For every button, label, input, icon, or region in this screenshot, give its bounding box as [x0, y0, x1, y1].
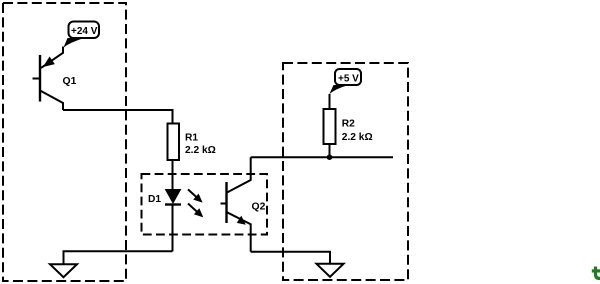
svg-text:D1: D1 — [148, 194, 161, 205]
wire +5V to R2 — [329, 94, 331, 109]
light arrow 1 — [188, 189, 197, 197]
left dashed subsystem box — [3, 3, 126, 281]
transistor Q1 (PNP) base bar — [39, 55, 41, 102]
optocoupler dashed box — [142, 174, 268, 235]
wire R1 to D1 anode — [172, 160, 174, 190]
ground (left) — [50, 264, 77, 277]
LED D1 triangle — [166, 190, 181, 204]
Q2 emitter arrowhead — [237, 216, 246, 225]
wire D1 cathode down — [172, 206, 174, 252]
svg-text:2.2 kΩ: 2.2 kΩ — [185, 145, 216, 156]
resistor R2 — [324, 109, 336, 144]
svg-text:2.2 kΩ: 2.2 kΩ — [342, 132, 373, 143]
+24 V supply label — [69, 22, 100, 39]
wire Q2 emitter to ground — [251, 252, 330, 264]
Q2 collector wire — [227, 157, 251, 192]
transistor Q2 (photo NPN) base bar — [225, 182, 227, 223]
Q2 base stub — [221, 203, 227, 205]
svg-text:+24 V: +24 V — [71, 26, 98, 37]
Q2 emitter wire — [227, 212, 251, 251]
svg-text:R1: R1 — [185, 133, 198, 144]
Q1 emitter arrowhead — [44, 57, 54, 66]
wire bottom left to ground — [64, 251, 173, 264]
svg-text:Q2: Q2 — [252, 202, 266, 213]
Q1 emitter wire — [41, 47, 63, 68]
Q1 collector wire — [40, 91, 63, 111]
svg-text:Q1: Q1 — [63, 76, 77, 87]
right dashed subsystem box — [283, 63, 408, 280]
light arrow 2 — [188, 204, 197, 212]
output wire (Q2 collector rail) — [251, 156, 393, 158]
+24 V supply label tail — [63, 38, 83, 48]
svg-text:R2: R2 — [342, 119, 355, 130]
wire Q1 collector to R1 — [63, 110, 173, 124]
D1 cathode bar — [165, 203, 181, 205]
Q1 base stub — [33, 78, 41, 80]
+5 V supply label — [335, 69, 361, 85]
resistor R1 — [168, 124, 180, 161]
+5 V supply label tail — [329, 85, 348, 94]
ground (right) — [317, 264, 344, 277]
watermark fragment (green letter t) — [592, 267, 600, 279]
svg-text:+5 V: +5 V — [338, 73, 359, 84]
wire R2 to junction — [329, 144, 331, 157]
junction node dot — [327, 154, 333, 160]
